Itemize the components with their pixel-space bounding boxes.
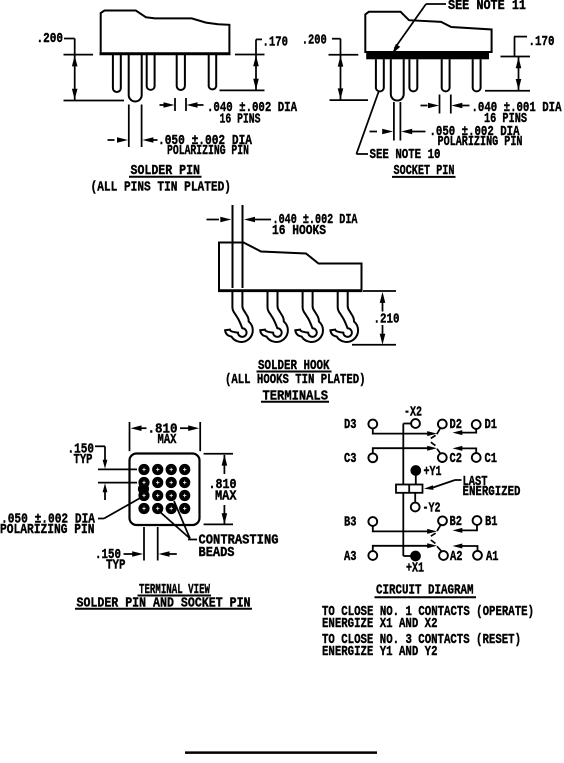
svg-text:BEADS: BEADS	[199, 545, 235, 561]
svg-text:MAX: MAX	[215, 488, 237, 504]
svg-text:+Y1: +Y1	[424, 464, 442, 480]
svg-text:C3: C3	[344, 451, 357, 467]
svg-text:.170: .170	[263, 34, 289, 50]
svg-text:.170: .170	[529, 34, 555, 50]
svg-text:(ALL HOOKS TIN PLATED): (ALL HOOKS TIN PLATED)	[225, 372, 366, 388]
svg-text:.200: .200	[302, 32, 327, 48]
svg-text:(ALL PINS TIN PLATED): (ALL PINS TIN PLATED)	[91, 179, 232, 195]
svg-text:A1: A1	[486, 549, 499, 565]
svg-text:-X2: -X2	[404, 404, 422, 420]
svg-text:.210: .210	[374, 311, 400, 327]
svg-text:.200: .200	[37, 31, 64, 47]
svg-text:CIRCUIT DIAGRAM: CIRCUIT DIAGRAM	[376, 582, 474, 598]
svg-text:SEE NOTE 11: SEE NOTE 11	[448, 0, 526, 14]
svg-text:A2: A2	[450, 549, 463, 565]
svg-text:MAX: MAX	[158, 432, 177, 448]
svg-text:POLARIZING PIN: POLARIZING PIN	[167, 143, 249, 159]
svg-text:A3: A3	[344, 549, 357, 565]
svg-text:D3: D3	[344, 417, 357, 433]
svg-text:-Y2: -Y2	[423, 500, 441, 516]
svg-text:TYP: TYP	[106, 557, 126, 573]
svg-text:C1: C1	[485, 451, 498, 467]
svg-text:D1: D1	[485, 417, 498, 433]
svg-text:16 HOOKS: 16 HOOKS	[272, 223, 326, 239]
svg-text:16 PINS: 16 PINS	[220, 111, 261, 127]
svg-text:B3: B3	[344, 514, 357, 530]
svg-text:POLARIZING PIN: POLARIZING PIN	[0, 522, 95, 538]
svg-text:TYP: TYP	[74, 452, 93, 468]
svg-text:C2: C2	[450, 451, 463, 467]
svg-text:D2: D2	[450, 417, 463, 433]
svg-text:POLARIZING PIN: POLARIZING PIN	[438, 134, 523, 150]
svg-text:ENERGIZED: ENERGIZED	[463, 484, 521, 500]
svg-text:SEE NOTE 10: SEE NOTE 10	[370, 147, 441, 163]
svg-text:B1: B1	[485, 514, 498, 530]
svg-text:ENERGIZE Y1 AND Y2: ENERGIZE Y1 AND Y2	[322, 644, 438, 660]
svg-text:B2: B2	[450, 514, 463, 530]
svg-text:+X1: +X1	[406, 560, 424, 576]
svg-text:ENERGIZE X1 AND X2: ENERGIZE X1 AND X2	[322, 616, 438, 632]
